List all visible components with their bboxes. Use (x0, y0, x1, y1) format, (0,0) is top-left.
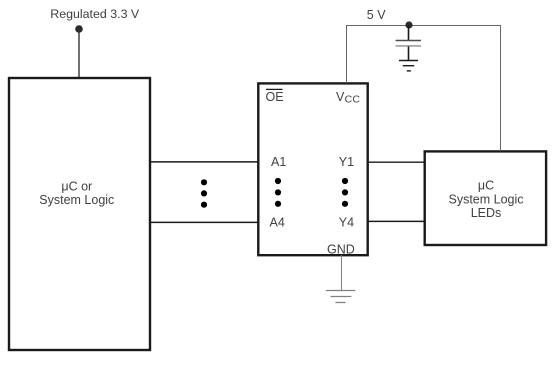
ground symbol at buffer GND (326, 291, 356, 303)
svg-text:GND: GND (327, 242, 355, 256)
wire 5V horizontal rail (346, 25, 501, 27)
ellipsis dots Y column (342, 178, 348, 207)
ellipsis dots between A wires (201, 179, 207, 208)
block U1 uC or System Logic (9, 78, 150, 350)
wire A1 (system logic to buffer A1) (150, 161, 258, 163)
svg-text:CC: CC (345, 94, 361, 106)
wire 5V drop to LED box (500, 25, 502, 151)
wire Y4 (buffer to LED box) (368, 220, 425, 222)
svg-text:Regulated 3.3 V: Regulated 3.3 V (50, 7, 140, 21)
wire GND from buffer (341, 255, 343, 290)
svg-text:System Logic: System Logic (39, 193, 114, 207)
capacitor C1 bypass (396, 25, 421, 60)
svg-text:μC: μC (478, 179, 494, 193)
block LED load box (425, 151, 546, 245)
buffer U2 box (258, 83, 367, 255)
svg-text:A1: A1 (271, 155, 286, 169)
pin label OE (active low, overbar) (266, 89, 284, 104)
svg-text:A4: A4 (270, 216, 285, 230)
ground symbol at capacitor (399, 61, 418, 71)
svg-text:μC or: μC or (61, 179, 92, 193)
svg-text:OE: OE (266, 90, 284, 104)
svg-text:LEDs: LEDs (471, 206, 502, 220)
junction dot on 5V rail (405, 21, 412, 28)
wire Y1 (buffer to LED box) (368, 161, 425, 163)
wire A4 (system logic to buffer A4) (150, 221, 258, 223)
svg-text:Y1: Y1 (339, 155, 354, 169)
svg-text:Y4: Y4 (339, 216, 354, 230)
wire from 3.3V node to system logic box (78, 29, 80, 77)
svg-text:5 V: 5 V (367, 8, 386, 22)
pin label VCC (336, 90, 360, 106)
ellipsis dots A column (275, 178, 281, 207)
wire VCC riser (346, 25, 348, 83)
svg-text:System Logic: System Logic (448, 192, 523, 206)
node dot Regulated 3.3 V terminal (75, 25, 83, 33)
